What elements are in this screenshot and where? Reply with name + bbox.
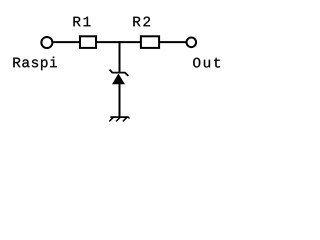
terminal Out [187, 38, 197, 48]
resistor R2 [141, 36, 159, 48]
ground tail [128, 117, 129, 118]
ground hatch 3 [123, 117, 128, 122]
terminal Raspi [41, 37, 52, 48]
wire [53, 41, 80, 43]
wire [159, 41, 186, 43]
zener diode anode triangle [112, 74, 125, 85]
ground hatch 2 [116, 117, 121, 122]
label Raspi [13, 57, 57, 71]
wire [119, 84, 121, 118]
label R2 [133, 17, 150, 27]
label Out [193, 58, 220, 68]
ground hatch 1 [109, 117, 114, 122]
wire [119, 41, 121, 73]
resistor R1 [80, 36, 96, 48]
zener diode cathode bar [110, 70, 129, 76]
label R1 [73, 17, 90, 27]
wire [96, 41, 141, 43]
ground bar [110, 116, 128, 118]
